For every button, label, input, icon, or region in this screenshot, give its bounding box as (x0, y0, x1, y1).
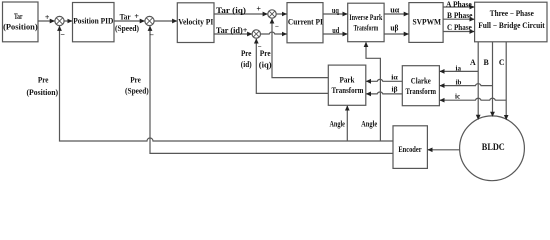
summing junction S4 (252, 30, 260, 38)
svg-text:Park: Park (340, 75, 356, 84)
wire S3 to Current PI (276, 13, 286, 15)
wire SVPWM A Phase (443, 6, 474, 8)
svg-text:uα: uα (390, 5, 400, 14)
svg-text:−: − (149, 30, 154, 39)
svg-text:Angle: Angle (329, 120, 345, 129)
svg-text:iα: iα (391, 73, 398, 81)
svg-text:ud: ud (332, 26, 339, 35)
svg-text:Encoder: Encoder (398, 145, 422, 154)
wire Position PID to S2 (114, 20, 144, 22)
svg-text:SVPWM: SVPWM (413, 17, 442, 27)
svg-text:(Position): (Position) (27, 88, 59, 97)
svg-text:−: − (60, 30, 65, 39)
wire ib tap to Clarke with hop over phase A (440, 84, 493, 86)
block Three-Phase Full-Bridge Circuit (475, 2, 547, 42)
svg-text:BLDC: BLDC (482, 143, 505, 153)
svg-text:Pre: Pre (241, 49, 252, 58)
svg-text:(Speed): (Speed) (125, 87, 149, 96)
wire S1 to Position PID (64, 20, 72, 22)
wire SVPWM B Phase (443, 18, 474, 20)
wire phase A vertical to BLDC (477, 42, 479, 120)
svg-text:ib: ib (456, 79, 462, 87)
svg-text:B Phase: B Phase (447, 11, 473, 20)
motor BLDC circle (460, 116, 525, 181)
wire Velocity PI Tar(id) to S4 (214, 33, 252, 35)
svg-text:ia: ia (456, 64, 462, 72)
svg-text:(iq): (iq) (259, 60, 272, 69)
svg-text:Transform: Transform (354, 23, 379, 32)
svg-text:Angle: Angle (361, 120, 377, 129)
wire ic tap to Clarke with hops over phases A and B (440, 98, 506, 100)
svg-text:C Phase: C Phase (447, 23, 472, 32)
wire BLDC to Encoder (428, 149, 460, 151)
summing junction S1 (55, 16, 64, 25)
svg-text:Pre: Pre (130, 76, 141, 85)
svg-text:A Phase: A Phase (446, 0, 472, 9)
svg-text:A: A (470, 58, 476, 67)
wire Velocity PI Tar(iq) to S3 (214, 13, 267, 15)
svg-text:Tar: Tar (14, 12, 23, 21)
wire Current PI uq to Inverse Park (323, 13, 347, 15)
wire angle to Park Transform (346, 106, 348, 141)
svg-text:Transform: Transform (332, 86, 364, 95)
svg-text:Pre: Pre (38, 75, 49, 84)
wire ibeta Clarke to Park with hop (366, 92, 402, 94)
svg-text:(Speed): (Speed) (115, 24, 139, 33)
wire Tar(Position) to S1 (38, 20, 54, 22)
svg-text:Transform: Transform (406, 87, 437, 96)
wire Pre(id) from Park Transform up to S4 (256, 39, 328, 94)
wire Inverse Park ubeta to SVPWM (384, 33, 408, 35)
wire SVPWM C Phase (443, 31, 474, 33)
wire phase B vertical to BLDC (492, 42, 494, 117)
summing junction S2 (145, 16, 154, 25)
block Current PI (287, 3, 323, 43)
wire ia tap to Clarke (440, 70, 478, 72)
svg-text:B: B (483, 58, 489, 67)
svg-text:uβ: uβ (390, 24, 398, 33)
wire S4 to Current PI with hop over Pre(iq) line (261, 32, 287, 34)
wire ialpha Clarke to Park with hop (366, 79, 402, 81)
wire encoder speed feedback to S2 (150, 26, 393, 153)
svg-text:Pre: Pre (260, 49, 271, 58)
block Position PID (73, 3, 115, 42)
svg-text:C: C (499, 58, 505, 67)
block Tar (Position) (3, 2, 39, 42)
svg-text:Full − Bridge Circuit: Full − Bridge Circuit (478, 21, 545, 30)
wire Pre(iq) from Park Transform up to S3 (272, 19, 328, 78)
svg-text:+: + (45, 13, 50, 22)
block Park Transform (328, 65, 366, 105)
svg-text:+: + (256, 4, 261, 13)
wire angle to Inverse Park (366, 42, 380, 141)
svg-text:(id): (id) (241, 60, 252, 69)
svg-text:Tar: Tar (120, 12, 131, 21)
block Encoder (393, 126, 427, 169)
block Clarke Transform (402, 66, 439, 106)
svg-text:−: − (275, 22, 279, 30)
block SVPWM (409, 3, 443, 43)
svg-text:Three − Phase: Three − Phase (490, 9, 534, 18)
svg-text:Tar (iq): Tar (iq) (216, 6, 246, 15)
summing junction S3 (268, 10, 276, 18)
svg-text:+: + (134, 12, 139, 21)
svg-text:Position PID: Position PID (73, 17, 113, 26)
svg-text:iβ: iβ (392, 85, 398, 93)
svg-text:Tar (id)+: Tar (id)+ (216, 26, 248, 35)
svg-text:Current PI: Current PI (288, 17, 323, 26)
svg-text:Clarke: Clarke (411, 76, 431, 85)
svg-text:Inverse Park: Inverse Park (349, 13, 382, 22)
svg-text:ic: ic (455, 93, 460, 101)
block Inverse Park Transform (348, 3, 384, 42)
block Velocity PI (177, 3, 214, 43)
svg-text:uq: uq (332, 6, 339, 15)
svg-text:(Position): (Position) (3, 22, 38, 31)
wire encoder position feedback to S1 with hop over speed line (60, 26, 394, 141)
svg-text:Velocity PI: Velocity PI (178, 18, 213, 27)
wire Inverse Park ualpha to SVPWM (384, 13, 408, 15)
wire Current PI ud to Inverse Park (323, 33, 347, 35)
wire phase C vertical to BLDC (505, 42, 507, 120)
wire S2 to Velocity PI (154, 20, 177, 22)
